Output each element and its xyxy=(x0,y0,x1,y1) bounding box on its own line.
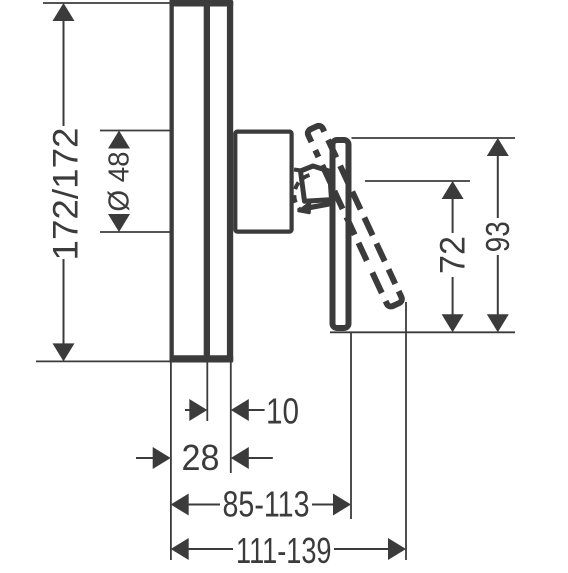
svg-text:72: 72 xyxy=(433,236,472,274)
svg-text:28: 28 xyxy=(182,437,220,478)
svg-text:93: 93 xyxy=(479,221,516,252)
svg-text:172/172: 172/172 xyxy=(46,128,85,261)
svg-text:111-139: 111-139 xyxy=(236,530,332,568)
svg-text:10: 10 xyxy=(266,391,299,432)
svg-text:85-113: 85-113 xyxy=(223,484,310,525)
svg-text:Ø 48: Ø 48 xyxy=(104,152,136,212)
